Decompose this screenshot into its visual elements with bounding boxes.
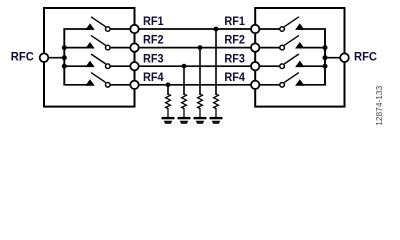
left switch block xyxy=(44,8,135,107)
wire SW4 to right bus xyxy=(300,84,326,86)
svg-text:RF3: RF3 xyxy=(224,53,245,65)
port RF4 right block xyxy=(251,81,259,89)
wire SW1 to right bus xyxy=(300,28,326,30)
port RF1 right block xyxy=(251,25,259,33)
switch SW4 left blade xyxy=(91,73,106,83)
wire SW3 to right bus xyxy=(300,65,326,67)
junction dot right bus RFC xyxy=(323,55,328,60)
switch SW1 right contact xyxy=(280,27,285,32)
wire RFC left to bus xyxy=(44,57,64,59)
switch SW4 right blade xyxy=(284,73,299,83)
switch SW3 right contact xyxy=(280,64,285,69)
switch SW1 left contact xyxy=(106,27,111,32)
wire RF3 net xyxy=(110,65,255,67)
port RF3 left block xyxy=(130,62,138,70)
port RF1 left block xyxy=(130,25,138,33)
switch SW1 left blade xyxy=(91,17,106,27)
wire SW2 to right bus xyxy=(300,47,326,49)
wire left bus to SW2 xyxy=(63,47,90,49)
svg-text:RF3: RF3 xyxy=(143,53,164,65)
wire left bus to SW1 xyxy=(63,28,90,30)
junction dot RF2 tap xyxy=(198,45,203,50)
wire right block port to contact RF4 xyxy=(255,84,280,86)
junction dot RF3 tap xyxy=(182,64,187,69)
switch SW3 left contact xyxy=(106,64,111,69)
switch SW3 right blade xyxy=(284,54,299,64)
switch SW2 right blade xyxy=(284,35,299,45)
ground R2 xyxy=(194,117,207,124)
right bus wire xyxy=(324,29,326,85)
wire RF4 net xyxy=(110,84,255,86)
switch SW1 right blade xyxy=(284,17,299,27)
junction dot left bus RF3 xyxy=(62,64,67,69)
junction dot right bus RF2 xyxy=(323,45,328,50)
svg-text:RF2: RF2 xyxy=(224,35,245,47)
resistor R1 xyxy=(214,94,219,118)
switch SW2 left triangle xyxy=(85,42,94,49)
switch SW2 left blade xyxy=(91,35,106,45)
ground R1 xyxy=(210,117,223,124)
wire right block port to contact RF3 xyxy=(255,65,280,67)
svg-text:RF2: RF2 xyxy=(143,35,164,47)
switch SW2 right contact xyxy=(280,45,285,50)
svg-text:RF1: RF1 xyxy=(143,16,164,28)
svg-text:RF4: RF4 xyxy=(143,72,164,84)
switch SW4 left triangle xyxy=(85,79,94,86)
port RF3 right block xyxy=(251,62,259,70)
dropper wire R4 to RF4 xyxy=(167,85,169,95)
dropper wire R1 to RF1 xyxy=(215,29,217,95)
switch SW1 right triangle xyxy=(295,23,304,30)
switch SW4 right contact xyxy=(280,83,285,88)
svg-text:RF1: RF1 xyxy=(224,16,245,28)
switch SW4 right triangle xyxy=(295,79,304,86)
port RF2 right block xyxy=(251,43,259,51)
svg-text:RFC: RFC xyxy=(354,52,377,64)
wire left bus to SW4 xyxy=(63,84,90,86)
dropper wire R3 to RF3 xyxy=(183,66,185,95)
ground R4 xyxy=(162,117,175,124)
wire RF1 net xyxy=(110,28,255,30)
ground R3 xyxy=(178,117,191,124)
junction dot right bus RF3 xyxy=(323,64,328,69)
svg-text:RF4: RF4 xyxy=(224,72,245,84)
switch SW3 right triangle xyxy=(295,61,304,68)
wire right block port to contact RF2 xyxy=(255,47,280,49)
port RF4 left block xyxy=(130,81,138,89)
resistor R4 xyxy=(166,94,171,118)
resistor R2 xyxy=(198,94,203,118)
wire RF2 net xyxy=(110,47,255,49)
switch SW4 left contact xyxy=(106,83,111,88)
junction dot RF4 tap xyxy=(166,82,171,87)
switch SW2 right triangle xyxy=(295,42,304,49)
right switch block xyxy=(255,8,344,107)
left bus wire xyxy=(63,29,65,85)
port RF2 left block xyxy=(130,43,138,51)
port RFC left xyxy=(40,53,49,62)
junction dot left bus RFC xyxy=(62,55,67,60)
switch SW1 left triangle xyxy=(85,23,94,30)
wire right bus to RFC right xyxy=(325,57,345,59)
svg-text:RFC: RFC xyxy=(11,52,34,64)
switch SW3 left triangle xyxy=(85,61,94,68)
svg-text:12874-133: 12874-133 xyxy=(374,85,384,125)
switch SW3 left blade xyxy=(91,54,106,64)
junction dot RF1 tap xyxy=(214,27,219,32)
dropper wire R2 to RF2 xyxy=(199,48,201,95)
wire left bus to SW3 xyxy=(63,65,90,67)
switch SW2 left contact xyxy=(106,45,111,50)
resistor R3 xyxy=(182,94,187,118)
wire right block port to contact RF1 xyxy=(255,28,280,30)
port RFC right xyxy=(340,53,349,62)
junction dot left bus RF2 xyxy=(62,45,67,50)
